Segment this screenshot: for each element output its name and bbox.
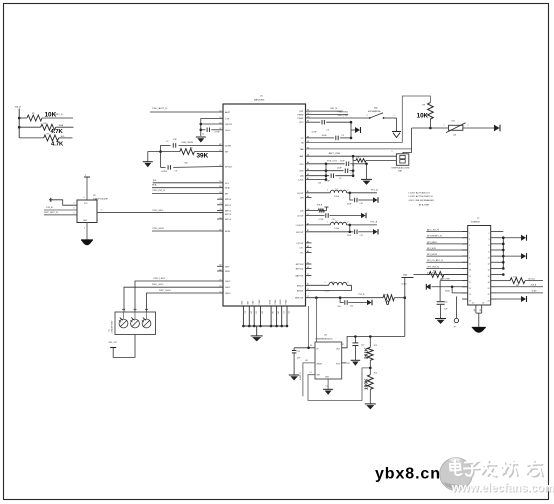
wire BSTVU2 stub xyxy=(306,263,312,265)
svg-text:1UF: 1UF xyxy=(297,357,301,359)
wire U1 QSTRT xyxy=(201,123,223,125)
wire pin stub MPC1 xyxy=(217,204,223,206)
svg-text:1V8_B: 1V8_B xyxy=(15,107,22,109)
svg-text:3: 3 xyxy=(84,227,85,229)
watermark text ybx8.cn xyxy=(375,466,441,483)
wire pin stub MPC0 xyxy=(217,198,223,200)
svg-text:10K: 10K xyxy=(417,112,429,119)
svg-text:4.7UH: 4.7UH xyxy=(325,291,331,293)
svg-text:21: 21 xyxy=(469,294,471,296)
node arrow terminal C14 xyxy=(367,300,372,306)
svg-text:SDA: SDA xyxy=(59,124,64,127)
svg-text:13: 13 xyxy=(469,270,471,272)
svg-text:H6: H6 xyxy=(273,311,275,313)
node arrow terminal after RT1 xyxy=(494,125,500,132)
wire vertical x326 xyxy=(325,164,328,180)
wire BATT_PWB xyxy=(306,151,397,157)
svg-text:261K: 261K xyxy=(363,347,369,359)
svg-text:U3: U3 xyxy=(324,334,328,336)
svg-text:2: 2 xyxy=(348,282,349,284)
svg-text:1: 1 xyxy=(325,282,326,284)
svg-text:VLED: VLED xyxy=(402,283,408,285)
svg-text:.1UF: .1UF xyxy=(337,306,342,308)
svg-text:PWC_LED2: PWC_LED2 xyxy=(154,278,166,280)
wire pin stub MPC4 xyxy=(217,218,223,220)
svg-text:VDC: VDC xyxy=(299,122,304,124)
svg-text:100K: 100K xyxy=(363,378,369,390)
wire PWC_RIN2 xyxy=(306,112,349,115)
wire BRKOUT xyxy=(306,296,384,299)
wire RT1 to arrow xyxy=(463,127,494,129)
svg-text:2: 2 xyxy=(348,190,349,192)
wire J2 right bus xyxy=(496,232,505,276)
svg-text:L2OUT ACTS AS LDO: L2OUT ACTS AS LDO xyxy=(409,192,431,195)
svg-text:10K: 10K xyxy=(453,134,457,136)
wire U2 pin1 xyxy=(51,200,77,205)
power flag VLED 1V8 xyxy=(402,273,414,297)
svg-text:22UF: 22UF xyxy=(347,235,352,237)
svg-text:1: 1 xyxy=(327,222,328,224)
svg-text:1: 1 xyxy=(74,203,75,205)
resistor R5 10K xyxy=(19,111,73,121)
svg-text:74AUP1G04GF: 74AUP1G04GF xyxy=(93,197,109,200)
capacitor C8 4.7UF xyxy=(306,173,355,182)
svg-text:POK: POK xyxy=(336,363,341,365)
svg-text:BAT: BAT xyxy=(399,169,403,172)
svg-text:2: 2 xyxy=(348,222,349,224)
capacitor C12 22UF on MCOUT xyxy=(306,225,374,237)
svg-text:3: 3 xyxy=(74,208,75,210)
wire U1 BRKOUT to U3 vertical b xyxy=(315,298,317,342)
ground under U2 xyxy=(81,223,93,246)
svg-text:SPI_MISO: SPI_MISO xyxy=(427,242,437,244)
capacitor C1 4.7UF xyxy=(201,128,223,136)
ground under C15 xyxy=(289,375,300,381)
svg-text:CELL: CELL xyxy=(225,130,231,132)
svg-text:SCL: SCL xyxy=(153,180,158,182)
svg-text:PWC_MPC_N: PWC_MPC_N xyxy=(44,212,58,214)
node arrow terminal J2 pin21 xyxy=(426,284,431,290)
svg-text:1: 1 xyxy=(444,125,445,127)
svg-text:MPC4: MPC4 xyxy=(225,219,232,221)
svg-text:C4: C4 xyxy=(327,130,329,132)
wire U3 OUT rail xyxy=(342,335,405,348)
svg-text:12: 12 xyxy=(488,264,490,266)
svg-text:VBA: VBA xyxy=(403,273,408,276)
svg-text:SET: SET xyxy=(317,374,322,376)
svg-text:PWC_MON: PWC_MON xyxy=(153,228,165,230)
svg-text:EVP-AWED3A: EVP-AWED3A xyxy=(368,110,381,113)
svg-text:5: 5 xyxy=(85,175,86,177)
wire vertical to ground cluster xyxy=(366,164,368,180)
svg-text:DIGIN: DIGIN xyxy=(225,145,231,147)
wire to ground left of R8 xyxy=(148,152,161,162)
U1 bottom pin names rotated xyxy=(242,299,288,305)
svg-text:C5: C5 xyxy=(342,135,344,137)
svg-text:MAX20806: MAX20806 xyxy=(254,98,265,101)
svg-text:SPI_MOSI: SPI_MOSI xyxy=(427,254,438,256)
svg-text:ALRT: ALRT xyxy=(225,111,231,114)
svg-text:R15: R15 xyxy=(514,277,517,279)
svg-text:MCOUT: MCOUT xyxy=(296,232,304,234)
wire 1V8_B rail xyxy=(18,109,21,138)
svg-text:PWC_MPC: PWC_MPC xyxy=(153,210,164,212)
svg-text:C16: C16 xyxy=(361,345,364,347)
capacitor C3 .047UF on SPOUT xyxy=(161,162,224,173)
svg-text:J2: J2 xyxy=(477,218,480,220)
svg-text:TP: TP xyxy=(454,327,457,329)
wire PWC_LED0 xyxy=(147,290,224,312)
svg-text:BATT_PWB: BATT_PWB xyxy=(329,152,341,155)
svg-text:24: 24 xyxy=(488,300,490,302)
svg-text:GND: GND xyxy=(325,377,330,379)
svg-text:MON: MON xyxy=(225,231,230,233)
diode LED1 LED2 LED3 symbols xyxy=(119,309,151,328)
capacitor C4 4.7UF on VDC xyxy=(306,120,352,134)
svg-text:R10: R10 xyxy=(357,157,360,159)
wire DIGIN branch rail xyxy=(159,145,162,167)
svg-text:E3: E3 xyxy=(256,311,258,313)
logo circle ybx8 xyxy=(440,458,473,491)
wire U3 SET feedback xyxy=(308,368,370,401)
node stub terminal at U2 pin1 xyxy=(49,198,51,202)
svg-text:L1OUTP: L1OUTP xyxy=(296,225,304,227)
resistor R9 10K xyxy=(417,103,434,128)
svg-text:IN2: IN2 xyxy=(185,162,188,164)
svg-text:R7: R7 xyxy=(47,133,49,135)
ground U3 GND pin xyxy=(323,379,333,395)
svg-text:LED0: LED0 xyxy=(225,293,231,295)
svg-text:MAX8880EXK29+: MAX8880EXK29+ xyxy=(316,338,334,341)
svg-text:16: 16 xyxy=(488,276,490,278)
resistor R11 0 xyxy=(383,294,406,307)
svg-text:ADC_INT_N: ADC_INT_N xyxy=(427,229,439,232)
svg-text:L2OK: L2OK xyxy=(298,180,304,182)
svg-text:C1: C1 xyxy=(202,133,204,135)
svg-text:C12: C12 xyxy=(360,235,363,237)
svg-text:SDA: SDA xyxy=(225,187,230,190)
svg-text:11: 11 xyxy=(469,264,471,266)
wire U1 to U3 IN vertical a xyxy=(308,306,310,348)
svg-text:U1: U1 xyxy=(260,96,264,98)
wire J2 pin21 with arrow xyxy=(432,285,468,288)
node arrow terminal J2 row10 xyxy=(521,253,527,259)
svg-text:PWM1: PWM1 xyxy=(298,118,305,120)
capacitor C10 22UF xyxy=(347,193,373,206)
svg-text:OPT_INT_N: OPT_INT_N xyxy=(427,266,439,268)
wire SPK_OUT loop xyxy=(109,335,136,358)
svg-text:SPI_RESET_N: SPI_RESET_N xyxy=(427,236,442,238)
switch SW EVP-AWED3A on PWC_PIN1 xyxy=(306,108,397,132)
svg-text:.1UF: .1UF xyxy=(173,139,178,141)
svg-text:C8: C8 xyxy=(339,178,341,180)
wire J2 pin19 xyxy=(440,278,468,280)
wire CP- stub xyxy=(306,252,312,254)
svg-text:G2: G2 xyxy=(480,309,482,311)
svg-text:BSTVU2: BSTVU2 xyxy=(296,264,305,266)
svg-text:15: 15 xyxy=(469,276,471,278)
svg-text:D3: D3 xyxy=(251,311,253,313)
svg-text:TA: TA xyxy=(301,141,304,144)
wire J2 row4 to arrow xyxy=(503,237,521,239)
svg-text:39K: 39K xyxy=(197,152,209,159)
svg-text:VLED: VLED xyxy=(532,291,538,293)
svg-text:L1OUT: L1OUT xyxy=(297,216,304,218)
wire junction down to BAT box xyxy=(403,128,412,154)
svg-text:4.7K: 4.7K xyxy=(51,129,64,135)
wire U3 IN xyxy=(294,345,315,349)
svg-text:SPI_SCK: SPI_SCK xyxy=(427,248,437,250)
svg-text:4.7K: 4.7K xyxy=(51,142,64,148)
svg-text:C4: C4 xyxy=(283,311,285,313)
svg-text:25: 25 xyxy=(472,303,474,305)
wires J2 left signal nets xyxy=(426,229,467,275)
svg-text:PWC_LED0: PWC_LED0 xyxy=(159,290,171,292)
U1 right pin numbers xyxy=(307,110,309,299)
wire SDA xyxy=(152,184,223,188)
wire pin stub SRP xyxy=(217,265,223,267)
svg-text:HVDD: HVDD xyxy=(269,299,271,305)
note text L2OUT xyxy=(409,192,435,207)
svg-text:17: 17 xyxy=(469,282,471,284)
svg-text:MPC3: MPC3 xyxy=(225,214,232,216)
ground under switch xyxy=(392,132,401,138)
power 1V8 flag above U2 xyxy=(84,175,91,201)
svg-text:10: 10 xyxy=(488,257,490,259)
U1 left pin numbers xyxy=(219,110,221,293)
wire PWC_ALRT_N to U1 ALRT xyxy=(150,107,223,112)
svg-text:14: 14 xyxy=(488,270,490,272)
node 1V8_B rail label xyxy=(15,107,22,109)
svg-text:L2N: L2N xyxy=(300,198,304,200)
op-amp U2 74AUP1G04 xyxy=(77,195,109,222)
svg-text:www.elecfans.com: www.elecfans.com xyxy=(451,483,554,495)
U1 left pin names xyxy=(225,111,233,295)
wire U3 SHDN stub xyxy=(300,359,315,396)
svg-text:SPI_CS_ADC_N: SPI_CS_ADC_N xyxy=(427,259,444,262)
svg-text:OUT: OUT xyxy=(336,348,341,350)
svg-text:SPOUT: SPOUT xyxy=(225,167,233,169)
svg-text:26: 26 xyxy=(482,303,484,305)
svg-text:VCC: VCC xyxy=(84,203,88,205)
wire PWC_LED2 xyxy=(135,278,223,312)
U1 bottom pin numbers rotated xyxy=(245,311,291,313)
wire BATOUT stub xyxy=(306,274,312,276)
wire pin stub SRN xyxy=(217,270,223,272)
wire J2 row10 to arrow xyxy=(503,255,521,257)
svg-text:G4: G4 xyxy=(219,212,221,214)
svg-text:QSTRT: QSTRT xyxy=(225,124,233,126)
svg-text:U2: U2 xyxy=(93,195,97,197)
svg-text:L1N: L1N xyxy=(300,210,304,212)
svg-text:1: 1 xyxy=(469,233,470,235)
svg-text:C18: C18 xyxy=(444,302,447,304)
inductor L3 on BRVU2 xyxy=(306,282,352,293)
svg-text:2: 2 xyxy=(74,213,75,215)
capacitor C2 .1UF on DIGIN xyxy=(161,139,224,148)
wire U2 output pin4 to U1 MPC xyxy=(97,210,223,213)
svg-text:C3: C3 xyxy=(175,170,177,172)
svg-text:MPC0: MPC0 xyxy=(225,199,232,201)
svg-text:L3: L3 xyxy=(332,282,334,284)
capacitor C15 1UF at U3 IN xyxy=(292,348,301,375)
svg-text:R11: R11 xyxy=(385,294,388,296)
svg-text:PVL_A: PVL_A xyxy=(371,189,378,192)
svg-text:IN: IN xyxy=(310,345,312,347)
wire CP+ stub xyxy=(306,247,312,249)
capacitor C14 .1UF branch xyxy=(337,294,367,308)
svg-text:BRVU2: BRVU2 xyxy=(297,285,305,287)
svg-text:SPK_OUT: SPK_OUT xyxy=(109,342,119,344)
svg-text:R9: R9 xyxy=(423,105,425,107)
svg-text:GND: GND xyxy=(242,300,244,305)
ground left of R8 xyxy=(143,162,153,168)
wire TA loop to R9 xyxy=(306,96,431,142)
svg-text:PWC_RIN2: PWC_RIN2 xyxy=(338,112,349,114)
svg-text:U4: U4 xyxy=(109,329,111,331)
svg-text:1: 1 xyxy=(327,190,328,192)
capacitor C5 .01UF on CP xyxy=(306,135,352,140)
resistor R15 0M on J2 pin18 xyxy=(496,277,543,288)
svg-text:PGND: PGND xyxy=(275,299,277,305)
svg-text:SYS: SYS xyxy=(299,164,304,166)
svg-text:A1: A1 xyxy=(261,311,264,313)
svg-text:2.2UH: 2.2UH xyxy=(334,228,340,230)
svg-text:4: 4 xyxy=(101,210,102,212)
wire PWC_INT_N xyxy=(152,190,223,193)
svg-text:2: 2 xyxy=(489,233,490,235)
svg-text:1V: 1V xyxy=(343,342,345,345)
watermark chinese characters xyxy=(450,461,543,478)
wire vertical joining C4 C5 xyxy=(350,121,355,139)
svg-text:ONLY ONE SW ENABLED: ONLY ONE SW ENABLED xyxy=(409,199,435,202)
node arrow terminal C11 xyxy=(361,213,366,219)
svg-text:A2: A2 xyxy=(348,362,350,365)
svg-text:BSTVU1: BSTVU1 xyxy=(296,269,305,271)
wire J2 pin22 VLED xyxy=(496,291,543,293)
svg-text:L2: L2 xyxy=(336,221,338,223)
svg-text:5: 5 xyxy=(84,197,85,199)
svg-text:CP+: CP+ xyxy=(300,248,305,250)
wire pin stub MPC2 xyxy=(217,209,223,211)
svg-text:22UF: 22UF xyxy=(347,203,352,205)
svg-text:C1: C1 xyxy=(326,385,328,387)
svg-text:A3: A3 xyxy=(306,359,308,362)
svg-text:.047UF: .047UF xyxy=(161,171,168,173)
resistor R14 100K xyxy=(363,368,377,404)
svg-text:L2OUT ACTIVE SWITCH: L2OUT ACTIVE SWITCH xyxy=(409,195,434,198)
ground under C17 xyxy=(435,319,446,325)
svg-text:BRVU1: BRVU1 xyxy=(297,291,305,293)
svg-text:C2: C2 xyxy=(166,141,168,143)
svg-text:1: 1 xyxy=(392,151,393,153)
wire U3 POK stub xyxy=(342,362,350,365)
node testpoint circle xyxy=(454,296,459,328)
ground under J2 shield xyxy=(472,328,486,333)
inductor L2 on L1OUTP xyxy=(306,221,378,231)
svg-text:SDA: SDA xyxy=(152,184,157,187)
capacitor C17 1UF to ground xyxy=(437,281,449,319)
svg-text:22UF: 22UF xyxy=(340,161,345,163)
svg-text:1: 1 xyxy=(394,115,395,117)
svg-text:10K: 10K xyxy=(318,183,322,185)
svg-text:LED1: LED1 xyxy=(225,287,231,289)
svg-text:2.2UH: 2.2UH xyxy=(334,196,340,198)
svg-text:RST_N: RST_N xyxy=(330,108,337,110)
svg-text:SW: SW xyxy=(374,108,378,110)
svg-text:D2: D2 xyxy=(289,311,291,313)
svg-text:MPC1: MPC1 xyxy=(225,205,232,207)
node arrow terminal C10 xyxy=(373,197,378,203)
svg-text:R5: R5 xyxy=(32,113,34,115)
resistor R12 0M to J2 pin17 xyxy=(414,270,468,280)
svg-text:23: 23 xyxy=(469,300,471,302)
svg-text:PVL_B: PVL_B xyxy=(371,222,378,224)
svg-text:IN: IN xyxy=(317,348,320,350)
svg-text:CTS: CTS xyxy=(225,119,230,121)
svg-text:S03M4255: S03M4255 xyxy=(471,222,480,224)
wire J2 pin24 to arrow xyxy=(496,298,521,300)
J2 pin stubs and numbers xyxy=(462,232,496,303)
svg-text:RST: RST xyxy=(300,111,305,113)
capacitor C7 22UF xyxy=(306,168,355,176)
op-amp U3 MAX8880EXK xyxy=(315,334,342,379)
wire junction under R9 xyxy=(412,125,448,129)
svg-text:ybx8.cn: ybx8.cn xyxy=(375,466,441,483)
svg-text:1V8_B: 1V8_B xyxy=(531,285,537,287)
svg-text:1UF: 1UF xyxy=(444,309,448,311)
connector U4 LED array box xyxy=(109,312,156,335)
svg-text:RT1: RT1 xyxy=(452,121,456,123)
svg-text:BAT: BAT xyxy=(300,155,305,158)
wire PWC_LED1 xyxy=(124,284,223,312)
svg-text:C11: C11 xyxy=(332,219,335,221)
resistor R10 on BAT pin2 xyxy=(353,156,396,162)
svg-text:INT: INT xyxy=(225,152,229,154)
svg-text:PWC_PIN1: PWC_PIN1 xyxy=(338,115,349,117)
svg-text:TAB: TAB xyxy=(300,148,304,151)
node arrow terminal C12 xyxy=(373,229,378,235)
resistor R13 261K xyxy=(363,337,377,370)
wire TAB to BAT path xyxy=(306,148,412,150)
svg-text:VLED: VLED xyxy=(445,291,451,293)
wire PWC_MPC_N to U2 pin2 xyxy=(44,212,77,215)
svg-text:3-LINEAR SW19: 3-LINEAR SW19 xyxy=(110,321,113,334)
svg-text:L1: L1 xyxy=(336,188,338,190)
svg-text:5: 5 xyxy=(469,245,470,247)
svg-text:SRP: SRP xyxy=(225,266,230,268)
svg-text:SBB: SBB xyxy=(248,300,250,304)
svg-text:BST_N: BST_N xyxy=(56,114,63,116)
svg-text:KEWPIN-A/B/C-PURE: KEWPIN-A/B/C-PURE xyxy=(392,166,411,169)
svg-text:22: 22 xyxy=(488,294,490,296)
svg-text:7: 7 xyxy=(469,251,470,253)
svg-text:L2A: L2A xyxy=(300,175,304,178)
svg-text:G1: G1 xyxy=(474,309,476,311)
resistor R6 4.7K xyxy=(19,123,73,135)
svg-text:PGND: PGND xyxy=(285,299,287,305)
svg-text:18: 18 xyxy=(488,282,490,284)
svg-text:9: 9 xyxy=(469,257,470,259)
capacitor C11 4.7UF on L1OUT xyxy=(306,213,362,221)
svg-text:PGND: PGND xyxy=(259,299,261,305)
svg-text:6: 6 xyxy=(489,245,490,247)
svg-text:C14: C14 xyxy=(350,306,353,308)
watermark elecfans url xyxy=(451,483,554,496)
svg-text:20: 20 xyxy=(488,288,490,290)
node arrow terminal J2 row4 xyxy=(521,235,527,241)
svg-text:SRN: SRN xyxy=(225,271,230,273)
